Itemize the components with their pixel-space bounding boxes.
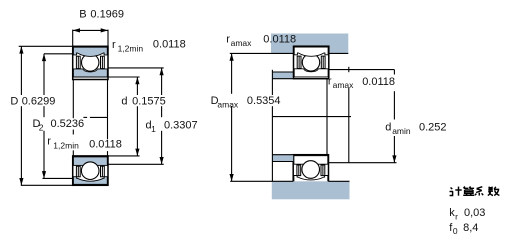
wire B extension right — [107, 30, 109, 47]
svg-text:0.1969: 0.1969 — [90, 8, 124, 20]
wire d leader top — [108, 76, 140, 78]
svg-text:0.0118: 0.0118 — [89, 138, 122, 150]
left-bottom ball — [81, 162, 99, 180]
wire d1 leader bottom — [108, 163, 164, 165]
dimension D outside diameter — [20, 46, 22, 95]
svg-text:amax: amax — [333, 80, 355, 90]
housing band top — [271, 34, 348, 54]
left-bottom shield right — [101, 166, 105, 177]
svg-text:0.3307: 0.3307 — [164, 120, 198, 132]
right-bottom ball — [302, 161, 320, 179]
svg-text:0,03: 0,03 — [464, 207, 485, 219]
svg-text:r: r — [112, 39, 116, 51]
wire B extension left — [72, 30, 74, 47]
left-top outline box — [73, 46, 108, 79]
right-top inner ring — [294, 69, 328, 77]
svg-text:0.5354: 0.5354 — [247, 95, 281, 107]
svg-text:1,2min: 1,2min — [118, 43, 144, 53]
wire bore extension right figure — [326, 79, 328, 155]
svg-text:0.252: 0.252 — [419, 121, 447, 133]
right-bottom outer ring — [294, 176, 328, 184]
wire bore extension right — [107, 80, 109, 140]
left-bottom outline box — [73, 156, 108, 185]
svg-text:D: D — [10, 96, 18, 108]
abutment face line — [271, 70, 273, 95]
label calculation factors (Chinese) — [450, 187, 462, 196]
wire D leader bottom — [21, 184, 73, 186]
right-bottom shield left — [297, 165, 301, 176]
left-top outer ring — [73, 47, 107, 56]
svg-text:r: r — [328, 76, 332, 88]
svg-text:B: B — [79, 8, 86, 20]
svg-text:d: d — [385, 121, 391, 133]
housing band bottom — [272, 181, 350, 199]
right-top shield left — [297, 56, 301, 68]
left-top inner ring — [73, 69, 107, 77]
left-bottom shield left — [76, 166, 80, 177]
svg-text:0.0118: 0.0118 — [362, 76, 395, 88]
dimension B width — [73, 29, 108, 31]
svg-text:r: r — [455, 211, 458, 221]
right-top outer ring — [294, 47, 328, 56]
wire da leader bottom — [328, 162, 396, 164]
svg-text:1,2min: 1,2min — [53, 140, 79, 150]
centerline axis left figure — [83, 116, 87, 118]
left-top ball — [82, 54, 99, 71]
dimension D2 recess diameter — [43, 54, 45, 95]
left-top shield right — [101, 56, 105, 68]
svg-text:2: 2 — [39, 123, 44, 133]
right-top ball — [302, 54, 319, 71]
left-bottom inner ring — [73, 157, 107, 166]
right-top shield right — [321, 56, 325, 68]
wire bore extension left — [72, 80, 74, 119]
svg-text:r: r — [226, 33, 230, 45]
housing bore line top — [230, 52, 294, 54]
right-bottom shield right — [321, 165, 325, 176]
centerline axis right figure — [272, 116, 351, 118]
svg-text:amax: amax — [217, 100, 239, 110]
wire D2 leader bottom — [43, 177, 73, 179]
svg-text:amax: amax — [231, 38, 253, 48]
wire da leader top — [328, 69, 394, 71]
svg-text:1: 1 — [151, 124, 156, 134]
right-bottom outline box — [293, 155, 328, 185]
shaft shoulder strip top — [272, 72, 293, 79]
break line housing edge — [348, 67, 350, 72]
svg-text:0.1575: 0.1575 — [132, 96, 166, 108]
left-bottom outer ring — [73, 177, 107, 185]
svg-text:amin: amin — [392, 126, 411, 136]
svg-text:0.6299: 0.6299 — [22, 96, 56, 108]
wire d1 leader top — [108, 67, 164, 69]
wire D leader top — [19, 45, 73, 47]
dimension d bore — [136, 77, 138, 95]
svg-text:d: d — [121, 96, 127, 108]
dimension damin — [393, 70, 395, 75]
svg-text:0.0118: 0.0118 — [263, 34, 296, 46]
wire D2 leader top — [44, 53, 73, 55]
housing bore line bottom — [230, 180, 293, 182]
shaft shoulder strip bottom — [272, 155, 293, 162]
svg-text:r: r — [47, 135, 51, 147]
svg-text:8,4: 8,4 — [463, 222, 478, 234]
right-top outline box — [294, 46, 329, 78]
right-bottom inner ring — [294, 156, 328, 165]
dimension d1 shoulder diameter — [161, 68, 163, 95]
dimension Damax — [231, 53, 233, 93]
svg-text:0.0118: 0.0118 — [153, 38, 186, 50]
left-top shield left — [76, 56, 80, 68]
svg-text:0.5236: 0.5236 — [51, 118, 85, 130]
svg-text:0: 0 — [453, 226, 458, 236]
wire d leader bottom — [108, 155, 140, 157]
